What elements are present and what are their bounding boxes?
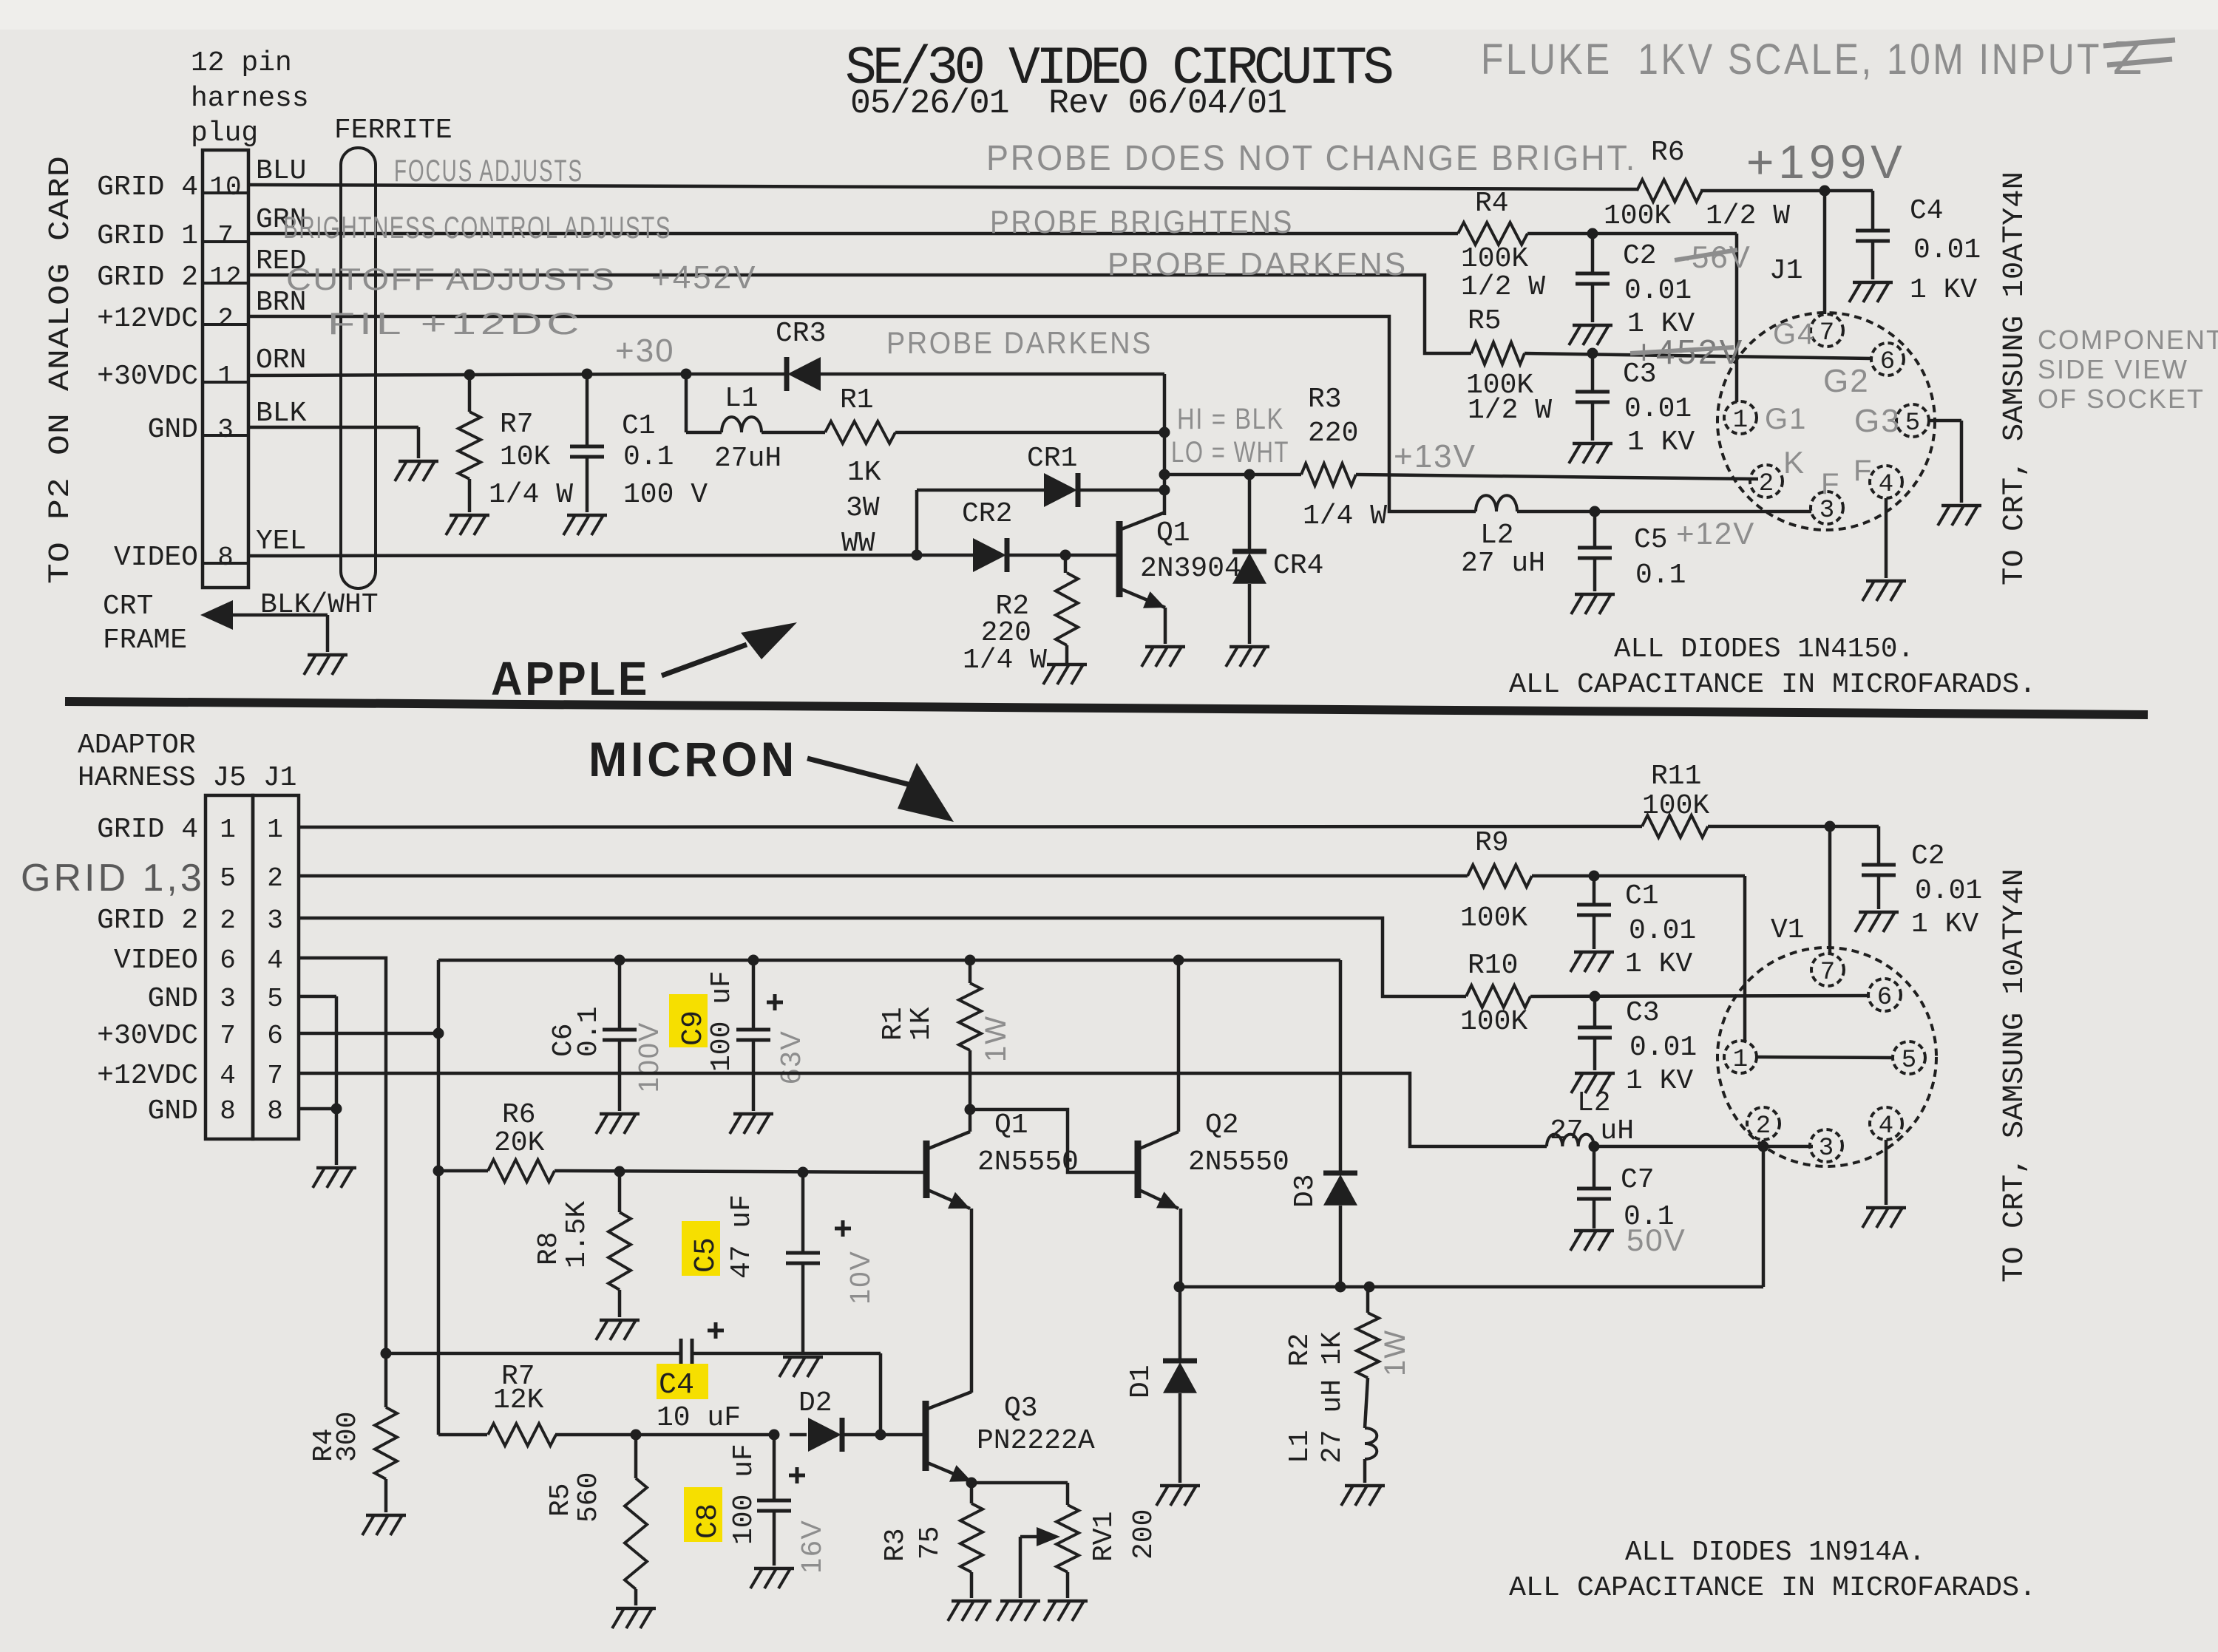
ground under C2 [1569,325,1612,345]
svg-text:100K: 100K [1460,1006,1527,1038]
handwritten +12V [1676,516,1755,551]
capacitor C5 bottom [682,1172,851,1354]
svg-text:100K: 100K [1642,790,1709,822]
svg-text:2: 2 [1759,470,1774,498]
J1 pin 7 [1811,314,1843,347]
svg-text:2: 2 [220,905,236,936]
svg-text:GRID 1: GRID 1 [97,220,198,252]
handwritten PROBE DOES NOT CHANGE BRIGHT [986,139,1637,178]
svg-text:C4: C4 [659,1369,694,1402]
connector row 7/6 [97,1020,283,1052]
wire R5 to pin6 [1525,353,1871,358]
svg-text:1 KV: 1 KV [1627,426,1695,458]
svg-text:3W: 3W [846,492,880,524]
note ALL CAPACITANCE top [1509,669,2036,701]
svg-text:1/2 W: 1/2 W [1461,271,1545,303]
resistor R2 bottom [1284,1287,1379,1378]
wire V1 pin1 to pin5 [1757,1057,1893,1058]
resistor R3 bottom [880,1483,983,1598]
ground under R2 top [1043,664,1087,684]
vertical bus at x1580 [1163,374,1167,515]
node CR1 join [1159,485,1170,496]
wire GRID1 row to R4 [248,232,1458,236]
svg-text:ALL CAPACITANCE IN MICROFARADS: ALL CAPACITANCE IN MICROFARADS. [1509,1572,2036,1604]
plug pin 2 labels +12VDC BRN [97,287,306,335]
svg-text:2N5550: 2N5550 [977,1146,1079,1178]
capacitor C1 top [570,374,708,512]
svg-text:12: 12 [209,262,241,293]
svg-text:63V: 63V [776,1030,807,1084]
resistor R6 [1604,137,1790,232]
ground under R8 [596,1320,640,1340]
svg-text:D3: D3 [1289,1174,1321,1208]
svg-text:R7: R7 [500,409,534,441]
svg-text:12 pin: 12 pin [191,47,292,79]
wire VIDEO drop [299,958,386,1353]
note ALL DIODES 1N914A [1625,1537,1925,1568]
svg-text:CR2: CR2 [962,498,1012,530]
resistor R6 bottom [488,1099,554,1182]
handwritten 1W rotated R2 [1379,1329,1411,1376]
svg-text:5: 5 [220,863,236,894]
plug pin 12 labels GRID 2 RED [97,245,306,293]
svg-text:7: 7 [1820,959,1835,987]
wire bottom GRID13 row [299,876,1745,1041]
ground under Q1 emitter [1142,647,1185,667]
svg-text:OF SOCKET: OF SOCKET [2038,384,2205,414]
plug pin 10 labels GRID 4 BLU [97,155,306,203]
svg-text:+452V: +452V [651,259,757,296]
svg-text:VIDEO: VIDEO [114,945,198,976]
diode D2 [798,1387,842,1452]
svg-text:10 uF: 10 uF [657,1402,741,1434]
wire Q1 emitter to ground [1164,608,1167,644]
resistor R9 [1460,827,1532,934]
wire Q2 emitter down [1179,1209,1183,1287]
svg-text:GND: GND [148,1095,198,1127]
svg-text:GRID 1,3: GRID 1,3 [21,857,205,900]
svg-text:TO CRT, SAMSUNG 10ATY4N: TO CRT, SAMSUNG 10ATY4N [1998,869,2032,1282]
svg-text:1: 1 [1733,1046,1748,1074]
svg-text:Q2: Q2 [1205,1109,1239,1141]
V1 pin 7 [1811,954,1844,987]
svg-text:0.1: 0.1 [1635,560,1686,591]
wire L1 R1 branch [686,374,1164,432]
ground under C8 [750,1568,794,1588]
svg-text:RV1: RV1 [1088,1512,1120,1562]
wire +30VDC rail [248,374,685,375]
node R11 out [1825,821,1836,832]
svg-text:3: 3 [1819,1135,1834,1163]
svg-text:R3: R3 [1308,384,1342,415]
node R7 junction [464,370,475,381]
svg-text:4: 4 [1879,471,1893,499]
ground under RV1 [1044,1601,1088,1621]
ground under C9 [730,1114,773,1134]
svg-text:PN2222A: PN2222A [977,1425,1095,1457]
ground under C5 [1571,594,1615,614]
wire L2 to pin3 [1517,510,1811,514]
svg-text:10K: 10K [500,441,551,473]
diode CR4 [1232,475,1323,644]
ground under C3 bottom [1571,1073,1615,1093]
svg-text:L2: L2 [1480,520,1514,551]
svg-text:5: 5 [1905,409,1920,438]
svg-text:D2: D2 [798,1387,832,1419]
ground at CRT frame [304,655,347,675]
MICRON arrow [807,758,954,822]
svg-text:2: 2 [217,304,234,334]
note ALL CAPACITANCE bottom [1509,1572,2036,1604]
ground under R3 bottom [948,1601,991,1621]
node C8 junction [769,1430,780,1441]
svg-text:R5: R5 [1468,305,1502,337]
svg-text:COMPONENT: COMPONENT [2038,324,2218,355]
adaptor harness connector body [206,795,299,1139]
svg-text:1K: 1K [906,1007,937,1041]
wire node to V1 pin7 [1828,826,1832,955]
svg-text:YEL: YEL [256,526,306,557]
handwritten COMPONENT SIDE VIEW OF SOCKET [2038,324,2218,414]
svg-text:16V: 16V [796,1519,827,1574]
handwritten G4 [1773,318,1815,350]
diode CR2 [962,498,1012,572]
ferrite bead capsule [341,148,376,588]
capacitor C9 [669,960,783,1111]
node rail R2 [1364,1282,1375,1293]
handwritten +452V scribbled [1630,333,1744,371]
svg-text:6: 6 [267,1021,283,1051]
V1 pin 1 [1724,1041,1757,1074]
svg-text:6: 6 [1877,984,1892,1012]
node C1 bottom junction [1589,871,1600,882]
svg-text:+199V: +199V [1746,135,1907,188]
svg-text:4: 4 [220,1061,236,1091]
node R1 bottom top [965,955,976,966]
wire L2 to pin3 bottom [1594,1145,1813,1149]
handwritten PROBE DARKENS row C [1108,246,1408,282]
svg-text:L1: L1 [1284,1430,1316,1464]
svg-text:0.01: 0.01 [1629,1032,1697,1064]
node CR4 junction [1244,469,1255,480]
handwritten PROBE BRIGHTENS [990,204,1294,240]
capacitor C5 top [1578,511,1686,591]
svg-text:L2: L2 [1577,1087,1611,1119]
svg-text:200: 200 [1128,1509,1160,1560]
wire +12VDC row jog to L2 [248,316,1476,511]
svg-text:MICRON: MICRON [589,732,798,786]
svg-text:R2: R2 [1284,1333,1316,1367]
wire CR2 segment [917,554,1119,557]
wire R4 to pin1 corner [1527,234,1737,402]
ground under C3 [1569,443,1612,463]
resistor R3 top [1301,384,1387,532]
svg-text:10V: 10V [845,1250,876,1305]
handwritten 16V rotated [796,1519,827,1574]
svg-text:2: 2 [267,863,283,894]
svg-text:12K: 12K [493,1384,544,1416]
J1 pin 1 [1724,401,1757,435]
handwritten +13V [1394,438,1476,475]
svg-text:Q3: Q3 [1004,1393,1038,1424]
connector row 6/4 [114,945,283,976]
handwritten 63V rotated [776,1030,807,1084]
node Q2 collector rail [1173,955,1184,966]
ground on GND row [395,461,438,481]
svg-text:GND: GND [148,983,198,1015]
node C2 junction [1587,228,1598,239]
capacitor C4 top [1856,191,1981,306]
svg-text:F: F [1821,468,1840,500]
svg-text:1 KV: 1 KV [1911,908,1978,940]
node +199V junction [1819,186,1831,197]
node C3 junction [1587,348,1598,359]
svg-text:Z: Z [2113,31,2143,84]
wire GND row8 [299,1109,336,1165]
handwritten F F [1821,455,1873,500]
resistor R7 [458,375,573,512]
svg-text:C5: C5 [690,1237,723,1273]
svg-text:100 V: 100 V [623,479,708,511]
svg-text:ALL CAPACITANCE IN MICROFARADS: ALL CAPACITANCE IN MICROFARADS. [1509,669,2036,701]
handwritten +452V left [651,259,757,296]
svg-text:1K: 1K [1317,1331,1349,1365]
svg-text:PROBE BRIGHTENS: PROBE BRIGHTENS [990,204,1294,240]
node +30 branch [681,369,692,380]
ground under C1 bottom [1570,952,1614,972]
svg-text:R11: R11 [1651,761,1701,792]
svg-text:R8: R8 [533,1231,565,1265]
svg-text:+30VDC: +30VDC [97,361,198,392]
vertical label TO CRT SAMSUNG top [1998,171,2032,585]
svg-text:1: 1 [220,815,236,845]
CRT frame arrow wire [200,600,328,652]
V1 pin 5 [1893,1041,1925,1075]
resistor R11 [1642,761,1709,837]
inductor L1 top [714,383,781,475]
svg-text:3: 3 [1819,497,1834,525]
svg-text:G2: G2 [1823,363,1870,399]
svg-text:C5: C5 [1634,524,1668,556]
svg-text:TO P2 ON ANALOG CARD: TO P2 ON ANALOG CARD [44,155,78,584]
svg-text:75: 75 [915,1526,946,1560]
svg-text:GRID 4: GRID 4 [97,171,198,203]
svg-text:100K: 100K [1461,243,1528,275]
capacitor C3 bottom [1578,996,1697,1097]
wire +30 rail bottom [438,959,1340,962]
svg-text:C1: C1 [1625,880,1659,912]
svg-text:27uH: 27uH [714,443,781,475]
wire Q1 collector [969,1109,972,1132]
wire Q3 collector [970,1391,974,1395]
CRT FRAME label [103,591,187,656]
handwritten G1 [1765,403,1807,435]
svg-text:220: 220 [1308,418,1358,449]
J1 pin 6 [1871,343,1904,376]
node R2 junction [1060,550,1071,561]
svg-text:G3: G3 [1854,403,1901,439]
svg-text:C3: C3 [1626,997,1660,1029]
svg-text:+12V: +12V [1676,516,1755,551]
wire bottom GRID4 row [299,826,1879,827]
wire GND row5 [299,996,336,1109]
handwritten CUTOFF ADJUSTS [286,262,616,296]
svg-text:CR4: CR4 [1273,550,1323,582]
node gnd join [331,1104,342,1115]
connector row 1/1 [97,814,283,846]
svg-text:+30VDC: +30VDC [97,1020,198,1052]
svg-text:3: 3 [267,905,283,936]
handwritten 50V [1627,1223,1686,1257]
ground under CR4 [1226,647,1269,667]
handwritten 10V rotated [845,1250,876,1305]
wire pin4 to ground [1885,498,1888,578]
vertical label TO P2 ON ANALOG CARD [44,155,78,584]
node R8 junction [614,1166,625,1177]
svg-text:K: K [1783,445,1805,480]
svg-text:G4: G4 [1773,318,1815,350]
svg-text:8: 8 [267,1096,283,1126]
ground under D1 [1156,1486,1200,1506]
connector J1 socket circle [1717,255,1935,530]
resistor R4 [1458,188,1545,303]
svg-text:2N5550: 2N5550 [1188,1146,1289,1178]
ground under wiper [997,1601,1040,1621]
V1 pin 2 [1747,1107,1780,1141]
ground under R7 [446,515,489,535]
svg-text:R5: R5 [545,1483,577,1517]
handwritten PROBE DARKENS near CR3 [886,325,1153,360]
svg-text:1W: 1W [980,1015,1012,1062]
svg-text:GRID 2: GRID 2 [97,262,198,293]
svg-text:FRAME: FRAME [103,625,187,656]
svg-text:R10: R10 [1468,950,1518,982]
svg-text:C7: C7 [1621,1164,1655,1196]
handwritten LO = WHT [1171,436,1289,469]
wire +30 row to branch [299,1032,438,1036]
svg-text:plug: plug [191,118,258,149]
node R6 top [433,1166,444,1177]
node C5 junction [1590,506,1601,517]
svg-text:1W: 1W [1379,1329,1411,1376]
svg-text:1K: 1K [847,457,881,489]
inductor L1 bottom [1284,1378,1377,1483]
capacitor C3 [1576,353,1695,458]
svg-text:L1: L1 [725,383,759,415]
RV1 wiper arrow [1020,1527,1060,1598]
svg-text:1 KV: 1 KV [1910,274,1977,306]
handwritten G2 [1823,363,1870,399]
node C5 junction bottom [798,1167,809,1178]
svg-text:VIDEO: VIDEO [114,542,198,574]
wire GRID4 row to R6 [248,185,1637,189]
label 12 pin harness plug [191,47,309,149]
resistor R4 bottom [308,1353,397,1512]
node R1 join [1159,427,1170,438]
plug pin 1 labels +30VDC ORN [97,344,306,392]
wire Q1 coll to Q2 base [970,1109,1136,1172]
connector row 4/7 [97,1060,283,1092]
ground under L1 [1341,1486,1385,1506]
svg-text:0.01: 0.01 [1913,234,1981,266]
wire CR3 branch [686,373,1164,376]
svg-text:1/2 W: 1/2 W [1706,200,1790,232]
svg-text:1/4 W: 1/4 W [1303,500,1387,532]
node pin2 filament junction [1758,1141,1769,1152]
connector row 3/5 [148,983,283,1015]
diode CR1 [1027,443,1078,507]
svg-text:6: 6 [1880,348,1895,376]
plug pin 8 labels VIDEO YEL [114,526,306,574]
transistor Q3 PN2222A [926,1392,1095,1482]
svg-text:SIDE VIEW: SIDE VIEW [2038,354,2188,384]
svg-text:1: 1 [267,815,283,845]
BLK/WHT label [260,589,379,621]
diode D1 [1125,1287,1197,1483]
svg-text:Q1: Q1 [994,1109,1028,1141]
svg-text:100V: 100V [634,1022,665,1093]
svg-text:6: 6 [220,945,236,976]
svg-text:CUTOFF ADJUSTS: CUTOFF ADJUSTS [286,262,616,296]
svg-text:4: 4 [1879,1112,1893,1141]
svg-text:GRID 4: GRID 4 [97,814,198,846]
MICRON label [589,732,798,786]
svg-text:PROBE DARKENS: PROBE DARKENS [886,325,1153,360]
svg-text:0.1: 0.1 [573,1007,605,1057]
node rail D3 [1335,1282,1346,1293]
handwritten GRID 1,3 [21,857,205,900]
svg-text:C8: C8 [692,1503,725,1539]
svg-text:1.5K: 1.5K [561,1201,593,1268]
ground under C6 [596,1114,640,1134]
ADAPTOR HARNESS label [78,730,296,794]
V1 pin 6 [1868,979,1901,1012]
svg-text:GRID 2: GRID 2 [97,905,198,937]
handwritten 100V rotated [634,1022,665,1093]
svg-text:0.1: 0.1 [623,441,674,473]
svg-text:HI = BLK: HI = BLK [1177,403,1284,435]
resistor R5 [545,1435,647,1605]
svg-text:V1: V1 [1771,914,1805,946]
svg-text:D1: D1 [1125,1364,1157,1398]
ground at pin4 [1862,581,1906,601]
ground under connector [313,1168,356,1188]
ground under R5 [612,1608,656,1628]
J1 pin 2 [1750,465,1783,498]
node CR2 left junction [912,550,923,561]
svg-text:FOCUS ADJUSTS: FOCUS ADJUSTS [394,153,583,188]
svg-text:BLU: BLU [256,155,306,187]
inductor L2 bottom [1547,1087,1634,1147]
wire Q2 collector [1177,960,1181,1132]
capacitor C1 bottom [1577,876,1696,980]
svg-text:7: 7 [217,221,234,251]
wire pin5 to ground [1929,421,1961,503]
diode D3 [1289,1173,1357,1287]
diode CR3 [776,318,826,391]
J1 pin 3 [1811,492,1843,525]
vertical label TO CRT SAMSUNG bottom [1998,869,2032,1282]
svg-text:ALL DIODES 1N914A.: ALL DIODES 1N914A. [1625,1537,1925,1568]
wire R6 row [438,1171,926,1172]
connector row 5/2 [220,863,283,894]
section divider line [65,701,2148,715]
svg-text:100 uF: 100 uF [706,971,738,1072]
wire GRID2 row with jog to R5 [248,275,1471,353]
svg-text:560: 560 [573,1472,605,1523]
connector row 2/3 [97,905,283,937]
svg-text:100 uF: 100 uF [728,1444,760,1545]
